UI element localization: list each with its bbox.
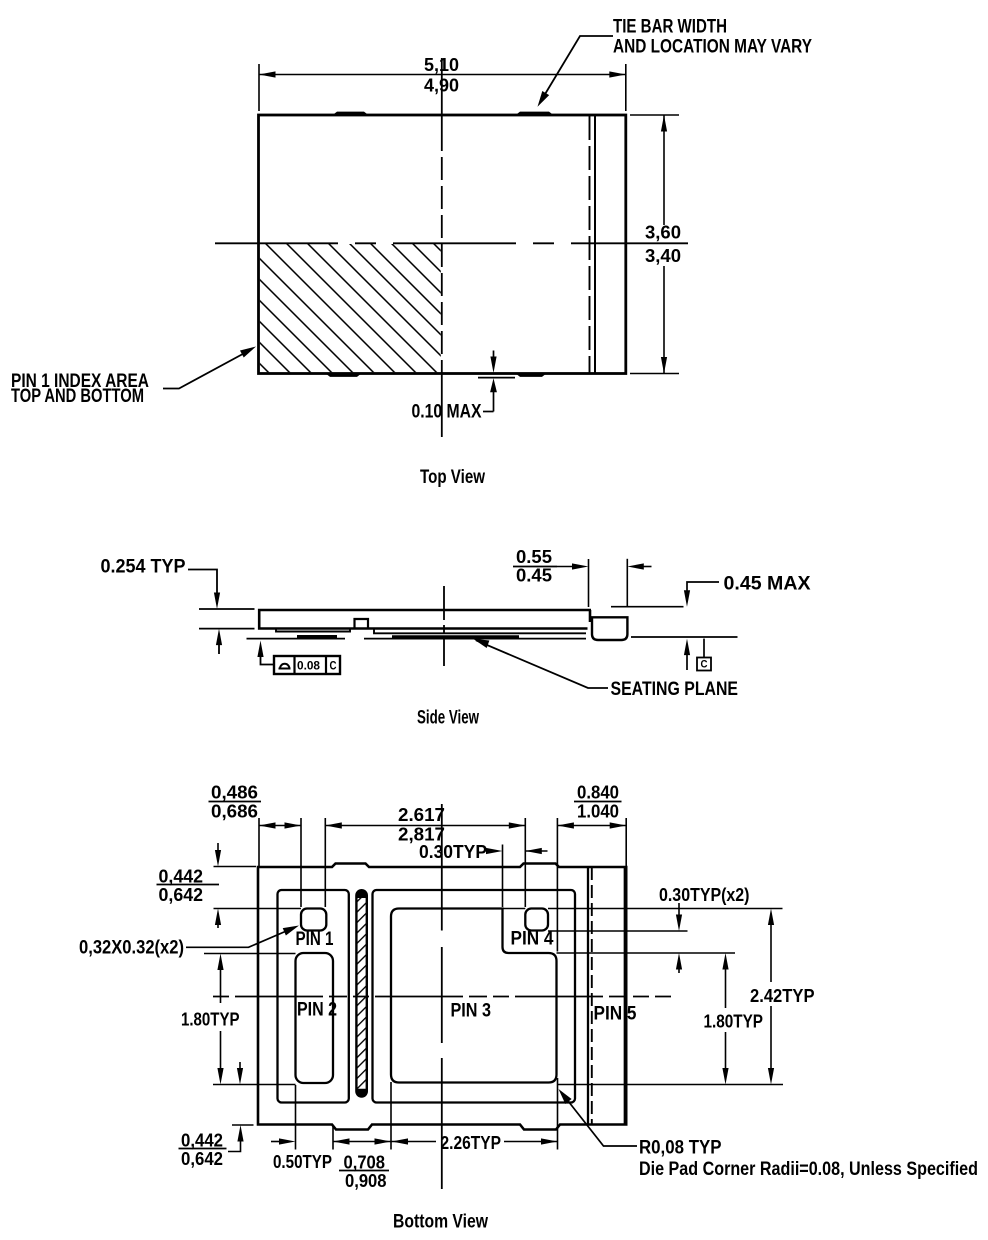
pin3 step extension line <box>557 952 736 954</box>
0.45 MAX down arrowhead <box>684 590 690 607</box>
svg-text:C: C <box>330 659 337 673</box>
bottom view horizontal center line <box>213 996 671 998</box>
dimension 5,10 / 4,90 extension line left <box>258 64 260 111</box>
dimension 0,486/0,686 line <box>259 825 301 827</box>
dimension 0.55/0.45 fraction bar <box>513 566 557 568</box>
0.254 TYP tick line lower <box>199 628 255 630</box>
flatness symbol <box>279 664 291 669</box>
bottom view vertical center line segment 1 <box>441 804 443 931</box>
svg-text:Side View: Side View <box>417 708 479 729</box>
pin 3 die pad with notch <box>391 909 557 1083</box>
bottom view package outline with tie bar jogs <box>258 864 626 1130</box>
svg-text:PIN 1: PIN 1 <box>296 929 334 950</box>
0.254 TYP leader <box>188 570 217 595</box>
ext line pin2 pad right bottom <box>332 1125 334 1150</box>
svg-text:0.08: 0.08 <box>297 659 320 673</box>
dimension 0.30TYP(x2) down arrow <box>678 903 680 917</box>
dimension 2.617/2,817 arrowheads <box>325 822 342 828</box>
svg-text:Bottom View: Bottom View <box>393 1212 488 1233</box>
tie bar mark bottom-right <box>515 373 547 377</box>
svg-text:0,32X0.32(x2): 0,32X0.32(x2) <box>79 938 184 959</box>
dimension 2.42TYP upper line <box>768 909 774 926</box>
svg-text:0.10 MAX: 0.10 MAX <box>412 402 482 423</box>
svg-text:0,642: 0,642 <box>181 1149 223 1169</box>
svg-text:0,442: 0,442 <box>181 1131 223 1151</box>
inner frame right cavity <box>373 890 576 1103</box>
SEATING PLANE leader arrowhead <box>472 635 490 648</box>
0.45 MAX leader <box>687 582 719 592</box>
pin4 pad bottom extension line <box>548 930 688 932</box>
leader R0,08 TYP arrowhead <box>555 1087 571 1105</box>
top view vertical center line upper solid segment <box>441 58 443 128</box>
dimension 0,708/0,908 arrowheads <box>333 1138 350 1144</box>
svg-text:0.55: 0.55 <box>516 547 552 567</box>
tie bar mark bottom-left <box>325 373 362 377</box>
leader 0,32X0.32(x2) <box>186 928 295 948</box>
dimension 1.80TYP left lower line <box>220 1031 222 1071</box>
dimension 5,10 / 4,90 left arrowhead <box>259 71 276 77</box>
center slot bottom cap fill <box>356 1089 366 1097</box>
tie bar solid line near right edge <box>594 116 596 373</box>
pin 5 lead right edge <box>624 867 626 1125</box>
svg-text:AND LOCATION MAY VARY: AND LOCATION MAY VARY <box>613 37 812 58</box>
dimension 0.55/0.45 right arrow <box>641 566 652 568</box>
datum C box <box>697 658 711 671</box>
seating plane line left segment <box>247 638 346 640</box>
svg-text:2.617: 2.617 <box>398 805 445 825</box>
dimension 0.30TYP left-pointing arrow <box>525 850 547 852</box>
dimension 1.80TYP right lower line <box>725 1032 727 1071</box>
ext line pin4 pad left <box>524 818 526 907</box>
dimension 5,10 / 4,90 extension line right <box>625 64 627 111</box>
pin 4 pad <box>525 909 548 931</box>
dimension 2.26TYP right segment <box>504 1141 558 1143</box>
ext line pin3 pad right bottom <box>557 1078 559 1150</box>
fraction bar 0.840/1.040 <box>574 801 622 803</box>
svg-text:0,642: 0,642 <box>159 885 204 905</box>
svg-text:SEATING PLANE: SEATING PLANE <box>611 679 739 700</box>
dimension 3,60 / 3,40 line upper <box>663 115 665 225</box>
tie bar mark top-left <box>332 112 369 116</box>
seating plane line mid segment <box>364 638 586 640</box>
dimension 5,10 / 4,90 right arrowhead <box>609 71 626 77</box>
dimension 1.80TYP right upper line <box>722 953 728 970</box>
extension segment across pin4 notch <box>503 908 526 910</box>
dimension 3,60 / 3,40 up arrowhead <box>661 115 667 132</box>
dimension 0,442/0,642 top up arrow <box>215 909 221 926</box>
dimension 0,486/0,686 arrowheads <box>259 822 276 828</box>
side view right lead shelf <box>374 629 586 634</box>
flatness leader arrowhead <box>257 641 263 658</box>
0.45 MAX reference line <box>611 606 684 608</box>
svg-text:1.80TYP: 1.80TYP <box>704 1012 764 1032</box>
svg-text:0,486: 0,486 <box>211 783 258 803</box>
top view vertical center line lower solid segment <box>441 374 443 438</box>
pin 1 index hatched area <box>260 244 441 372</box>
svg-text:TIE BAR WIDTH: TIE BAR WIDTH <box>613 17 727 38</box>
ext line pin1 pad right <box>324 818 326 907</box>
top view horizontal center line <box>215 242 688 244</box>
0.45 MAX up arrow stem <box>686 652 688 670</box>
ext line package left <box>258 818 260 866</box>
center slot hatched <box>356 890 366 1096</box>
svg-text:PIN 3: PIN 3 <box>451 1001 492 1022</box>
top view package body outline <box>259 115 626 374</box>
svg-text:TOP AND BOTTOM: TOP AND BOTTOM <box>11 386 144 407</box>
ext line package right top <box>625 818 627 866</box>
pin 5 hidden tie bar dashed line <box>591 867 593 1125</box>
side view left lead shelf <box>276 629 350 632</box>
dimension 1.80TYP left upper line <box>217 954 223 971</box>
svg-text:0.45 MAX: 0.45 MAX <box>724 574 811 595</box>
svg-text:0.30TYP: 0.30TYP <box>419 842 487 862</box>
dimension 0.840/1.040 line <box>557 825 626 827</box>
svg-text:PIN 4: PIN 4 <box>511 929 554 950</box>
dimension 3,60 / 3,40 extension line top <box>630 114 679 116</box>
dimension 3,60 / 3,40 extension line bottom <box>630 373 679 375</box>
inner frame left cavity <box>278 890 349 1103</box>
pads bottom extension line right <box>558 1084 784 1086</box>
svg-text:0,908: 0,908 <box>345 1171 387 1191</box>
package top edge tick left <box>214 866 257 868</box>
dimension 2.617/2,817 line <box>325 825 525 827</box>
dimension 5,10 / 4,90 line <box>259 74 626 76</box>
side view body outline <box>259 610 591 629</box>
svg-text:1.80TYP: 1.80TYP <box>181 1010 240 1030</box>
svg-text:PIN 2: PIN 2 <box>297 1000 337 1021</box>
0.45 MAX up arrowhead <box>684 639 690 656</box>
0.10 MAX up arrow stem <box>493 392 495 412</box>
ext line pin3 notch left <box>502 845 504 908</box>
feature control frame box <box>274 656 340 674</box>
0.10 MAX down arrowhead <box>490 357 496 374</box>
dimension 3,60 / 3,40 down arrowhead <box>661 357 667 374</box>
dimension 0.55/0.45 extension line right <box>626 559 628 607</box>
pin 1 pad <box>301 909 326 931</box>
0.10 MAX leader <box>483 411 494 413</box>
top view vertical center line dashed segment <box>441 128 443 374</box>
side view center line <box>443 586 445 666</box>
leader 0,32X0.32(x2) arrowhead <box>283 922 301 936</box>
dimension 2.42TYP lower line <box>770 1006 772 1071</box>
svg-text:R0,08 TYP: R0,08 TYP <box>639 1138 722 1159</box>
side view body right end edge <box>589 610 592 622</box>
side view left pad thick line <box>297 635 337 638</box>
dimension 0.55/0.45 extension line left <box>588 559 590 607</box>
0.10 MAX short tick line below bottom edge <box>478 377 515 379</box>
feature control frame divider 1 <box>293 656 295 674</box>
bottom view vertical center line segment 2 <box>441 947 443 1043</box>
dimension 0.55/0.45 left arrow <box>557 566 574 568</box>
pin2 pad top extension line <box>204 953 296 955</box>
ext line pin2 pad left bottom <box>295 1085 297 1150</box>
svg-text:Top View: Top View <box>420 467 485 488</box>
dimension 0.50TYP arrow <box>271 1141 281 1143</box>
ext line 0.840 left <box>556 818 558 952</box>
center slot top cap fill <box>356 890 366 898</box>
0.254 TYP down arrowhead <box>214 593 220 610</box>
feature control frame divider 2 <box>325 656 327 674</box>
side view tie bar bump <box>355 619 369 629</box>
svg-text:0.30TYP(x2): 0.30TYP(x2) <box>659 885 750 905</box>
svg-text:2.26TYP: 2.26TYP <box>441 1133 502 1153</box>
svg-text:0.50TYP: 0.50TYP <box>273 1152 332 1172</box>
0.254 TYP tick line upper <box>199 608 255 610</box>
svg-text:0.254 TYP: 0.254 TYP <box>101 557 186 578</box>
0.254 TYP up arrow stem <box>218 642 220 654</box>
svg-text:2.42TYP: 2.42TYP <box>750 986 815 1006</box>
tie bar hidden dashed line near right edge <box>589 116 591 373</box>
dimension 0,708/0,908 line <box>333 1141 391 1143</box>
0.254 TYP up arrowhead <box>216 629 222 646</box>
fraction bar 0,708/0,908 <box>339 1170 389 1172</box>
flatness leader <box>261 652 275 665</box>
svg-text:0,442: 0,442 <box>159 867 204 887</box>
side view right pad thick line <box>392 635 519 638</box>
package bottom edge tick left <box>232 1124 254 1126</box>
svg-text:PIN 5: PIN 5 <box>594 1004 637 1025</box>
tie bar leader arrowhead <box>534 91 549 109</box>
fraction bar 0,442/0,642 top <box>157 884 220 886</box>
leader R0,08 TYP <box>561 1092 637 1146</box>
pin 2 pad <box>296 953 334 1083</box>
0.10 MAX up arrowhead <box>490 378 497 392</box>
svg-text:4,90: 4,90 <box>424 76 459 96</box>
dimension 0.30TYP(x2) up arrow <box>676 953 682 970</box>
svg-text:Die Pad Corner Radii=0.08, Unl: Die Pad Corner Radii=0.08, Unless Specif… <box>639 1159 978 1180</box>
dimension 0.30TYP right-pointing arrow <box>488 850 494 852</box>
dimension 0.840/1.040 arrowheads <box>557 822 574 828</box>
tie bar leader line <box>540 36 613 103</box>
pin 1 index leader arrowhead <box>240 343 258 358</box>
pin 1 index leader line <box>163 349 252 389</box>
dimension 3,60 / 3,40 line lower <box>663 266 665 374</box>
pads top extension line right <box>548 908 783 910</box>
side view right lead (0.45 max feature) <box>592 617 627 640</box>
datum C tick <box>703 639 705 658</box>
svg-text:0.45: 0.45 <box>516 566 552 586</box>
pin 5 lead left edge <box>587 867 589 1125</box>
pads top extension line left <box>214 908 302 910</box>
svg-text:C: C <box>701 659 708 671</box>
tie bar mark top-right <box>515 112 554 116</box>
svg-text:0,708: 0,708 <box>344 1153 386 1173</box>
seating plane line right <box>631 636 738 638</box>
dimension 0,442/0,642 top down arrow <box>217 843 219 852</box>
fraction bar 0,442/0,642 bottom <box>179 1148 227 1150</box>
bottom view vertical center line segment 3 <box>441 1058 443 1189</box>
svg-text:3,60: 3,60 <box>645 223 681 243</box>
ext line pin3 pad left bottom <box>390 1082 392 1150</box>
fraction bar 0,486/0,686 <box>209 801 262 803</box>
dimension 0,442/0,642 bottom down arrow <box>239 1062 241 1071</box>
ext line pin1 pad left <box>300 818 302 907</box>
svg-text:3,40: 3,40 <box>645 246 681 266</box>
svg-text:1.040: 1.040 <box>577 802 619 822</box>
dimension 2.26TYP left segment <box>392 1138 409 1144</box>
svg-text:0,686: 0,686 <box>211 802 258 822</box>
svg-text:5,10: 5,10 <box>424 55 459 75</box>
SEATING PLANE leader <box>476 640 608 688</box>
dimension 0,442/0,642 bottom up arrow <box>237 1125 243 1142</box>
pads bottom extension line left <box>213 1084 296 1086</box>
0.10 MAX down arrow stem <box>493 351 495 359</box>
svg-text:0.840: 0.840 <box>577 783 619 803</box>
